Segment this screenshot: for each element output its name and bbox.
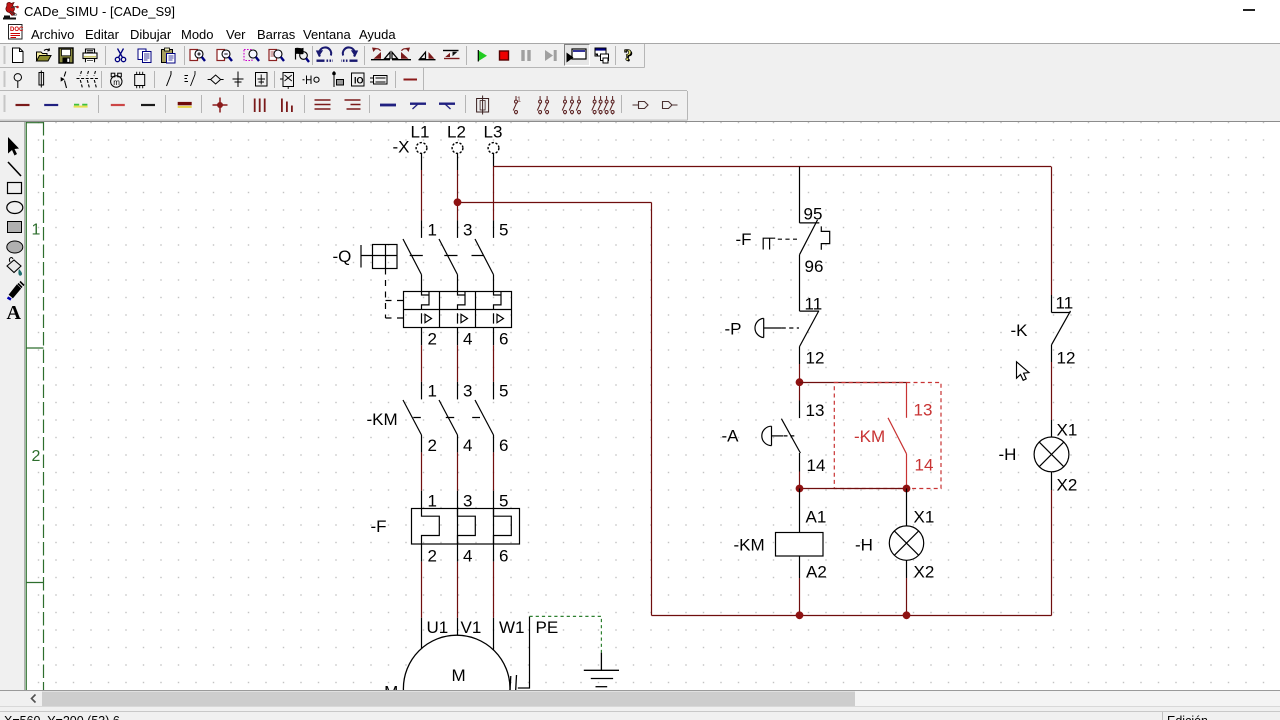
lamp H1 <box>889 526 923 560</box>
ground symbol <box>584 653 619 687</box>
breaker Q1 trip link dashed <box>385 269 387 319</box>
breaker Q1 contact blade pole3 <box>475 239 494 275</box>
icon: step <box>545 50 553 61</box>
svg-text:2: 2 <box>32 448 41 465</box>
toolbars <box>0 43 1280 122</box>
wire L1 phase <box>421 153 423 170</box>
svg-text:5: 5 <box>499 382 508 401</box>
stop button P1 11-12 <box>755 311 819 347</box>
svg-text:12: 12 <box>1057 349 1076 368</box>
breaker Q1 pole wires into trip unit <box>422 275 494 292</box>
svg-text:L3: L3 <box>484 123 503 142</box>
icon: copy <box>138 49 151 63</box>
sheet margin tick top <box>26 122 43 124</box>
svg-text:11: 11 <box>1056 294 1074 313</box>
selection box around KM aux <box>834 383 941 489</box>
svg-text:-KM: -KM <box>734 536 765 555</box>
bucket tool <box>7 258 22 276</box>
svg-text:2: 2 <box>428 436 437 455</box>
svg-text:1: 1 <box>428 221 437 240</box>
node junction bottom right <box>903 485 911 493</box>
relay contact K1 11-12 <box>1052 311 1071 345</box>
breaker Q1 magnetic I> pole3 <box>494 313 504 323</box>
sheet margin tick middle <box>26 347 43 349</box>
wire 12 to node <box>799 347 801 364</box>
zoom icons <box>190 50 205 62</box>
wire coil to bottom rail <box>799 556 801 578</box>
svg-text:V1: V1 <box>461 618 482 637</box>
svg-text:11: 11 <box>805 294 823 313</box>
icon: redo <box>341 47 358 60</box>
svg-text:-KM: -KM <box>854 427 885 446</box>
svg-text:-K: -K <box>1011 321 1029 340</box>
row1 separators <box>106 46 616 65</box>
ellipse tool <box>7 202 23 214</box>
wire pole2 KM to F <box>457 435 459 452</box>
h scrollbar <box>26 691 1280 706</box>
svg-text:W1: W1 <box>499 618 525 637</box>
breaker Q1 thermal element pole1 <box>422 292 430 310</box>
wire control top rail from L3 <box>494 166 1052 168</box>
auxiliary contact KM1 13-14 selected <box>888 383 907 489</box>
svg-text:m: m <box>113 78 120 87</box>
svg-text:3: 3 <box>463 491 472 510</box>
breaker Q1 thermal element pole3 <box>494 292 502 310</box>
svg-text:A: A <box>7 302 22 324</box>
icon: cut <box>115 49 125 62</box>
row2 icons <box>14 71 387 90</box>
breaker Q1 trip unit box <box>404 292 512 328</box>
wire pole2 Q to KM <box>457 328 459 346</box>
contactor KM1 blade pole3 <box>475 400 494 435</box>
svg-text:95: 95 <box>804 204 823 223</box>
svg-text:4: 4 <box>463 547 472 566</box>
wire node to coil <box>799 489 801 533</box>
icon: save <box>59 48 73 63</box>
wire L3 phase <box>493 153 495 166</box>
node junction rail left <box>796 611 804 619</box>
wire right rail stub to K contact <box>1051 295 1053 313</box>
title bar <box>0 0 1280 22</box>
line tool <box>8 162 21 176</box>
icon: play <box>479 51 488 62</box>
row3 icons <box>16 104 30 106</box>
svg-text:3: 3 <box>463 382 472 401</box>
wire lamp H1 to bottom rail <box>906 560 908 578</box>
svg-text:1: 1 <box>517 97 521 104</box>
breaker Q1 actuator box <box>361 245 397 269</box>
terminal L3 <box>488 143 499 154</box>
svg-text:-X: -X <box>393 138 410 157</box>
PE earth link dashed green <box>530 616 602 652</box>
icon: help <box>624 46 634 66</box>
sheet margin tick lower <box>26 582 43 584</box>
thermal relay F1 heater pole3 <box>494 508 512 544</box>
svg-text:X2: X2 <box>914 563 935 582</box>
svg-text:M: M <box>452 666 466 685</box>
coil KM1 <box>776 533 824 557</box>
wire neutral rail from L2 <box>458 202 652 204</box>
menu bar <box>0 22 1280 43</box>
canvas <box>25 122 1280 690</box>
node junction after 12 <box>796 378 804 386</box>
wire pole3 F to motor <box>493 544 495 562</box>
svg-text:-KM: -KM <box>367 410 398 429</box>
PE tick at motor <box>510 675 517 690</box>
svg-text:1: 1 <box>428 491 437 510</box>
left tool panel <box>0 122 25 706</box>
svg-text:?: ? <box>624 46 633 65</box>
wire lamp H2 to bottom rail <box>1051 472 1053 490</box>
icon: rotate right <box>392 48 411 60</box>
sheet margin outer line <box>25 122 27 690</box>
svg-text:Edición: Edición <box>1167 714 1208 720</box>
breaker Q1 linkage dashes <box>410 255 484 257</box>
svg-text:U1: U1 <box>427 618 449 637</box>
bottom scroll + status <box>0 690 1280 720</box>
thermal relay F1 box <box>412 509 520 545</box>
overload contact F1 95-96 <box>763 220 830 255</box>
breaker Q1 contact blade pole1 <box>403 239 422 275</box>
node junction rail right <box>903 611 911 619</box>
svg-text:6: 6 <box>499 329 508 348</box>
select arrow tool <box>8 137 19 156</box>
icon: paste <box>162 48 176 63</box>
status bar <box>0 711 1280 713</box>
breaker Q1 magnetic I> pole2 <box>458 313 468 323</box>
svg-text:6: 6 <box>499 436 508 455</box>
wire 14 to bottom node <box>799 453 801 472</box>
svg-text:96: 96 <box>805 257 824 276</box>
svg-text:X1: X1 <box>914 508 935 527</box>
contactor KM1 blade pole1 <box>403 400 422 435</box>
wire pole1 F to motor <box>421 544 423 562</box>
motor M1 circle <box>403 635 510 720</box>
svg-text:12: 12 <box>806 348 825 367</box>
svg-text:14: 14 <box>807 456 826 475</box>
row2 separators <box>102 71 396 88</box>
dropper tool <box>8 282 25 300</box>
svg-text:X2: X2 <box>1057 476 1078 495</box>
wire pole1 KM to F <box>421 435 423 452</box>
node junction bottom left <box>796 485 804 493</box>
svg-text:1: 1 <box>428 382 437 401</box>
svg-text:A1: A1 <box>806 508 827 527</box>
wire node to start button <box>799 386 801 401</box>
wire control drop to F95 <box>799 167 801 223</box>
svg-text:X1: X1 <box>1057 421 1078 440</box>
wire left rail down <box>651 203 653 616</box>
svg-text:-H: -H <box>999 445 1017 464</box>
start button A1 13-14 <box>762 419 801 453</box>
wire node to lamp H1 <box>906 489 908 526</box>
wire parallel top <box>800 382 907 384</box>
icon: rotate left <box>371 48 390 60</box>
svg-text:6: 6 <box>499 547 508 566</box>
wire parallel bottom <box>800 488 907 490</box>
svg-text:2: 2 <box>428 329 437 348</box>
svg-text:L1: L1 <box>411 123 430 142</box>
icon: pause <box>523 50 529 61</box>
terminal L1 <box>416 143 427 154</box>
icon: window2 cascade <box>595 48 609 63</box>
svg-text:IO: IO <box>354 76 364 86</box>
svg-text:X=560, Y=200 (53) 6: X=560, Y=200 (53) 6 <box>4 714 120 720</box>
wire pole3 KM to F <box>493 435 495 452</box>
svg-text:-F: -F <box>736 230 752 249</box>
svg-text:DOC: DOC <box>10 27 24 33</box>
contactor KM1 blade pole2 <box>439 400 458 435</box>
svg-text:-F: -F <box>371 517 387 536</box>
wire 96 to 11 <box>799 255 801 311</box>
svg-text:PE: PE <box>536 618 559 637</box>
svg-text:3: 3 <box>463 221 472 240</box>
wire pole1 Q to KM <box>421 328 423 346</box>
wire 12 to lamp H2 <box>1051 345 1053 362</box>
terminal L2 <box>452 143 463 154</box>
icon: mirror h <box>443 51 460 59</box>
rect tool <box>8 183 22 194</box>
thermal relay F1 heater pole1 <box>422 508 440 544</box>
breaker Q1 contact blade pole2 <box>439 239 458 275</box>
filled rect tool <box>8 222 22 233</box>
contactor KM1 linkage dashes <box>413 417 480 419</box>
filled ellipse tool <box>7 241 23 253</box>
svg-text:5: 5 <box>499 491 508 510</box>
svg-text:13: 13 <box>806 401 825 420</box>
svg-text:A2: A2 <box>806 563 827 582</box>
svg-text:L2: L2 <box>447 123 466 142</box>
icon: stop <box>500 51 509 60</box>
svg-text:-H: -H <box>855 536 873 555</box>
svg-text:4: 4 <box>463 329 472 348</box>
icon: print <box>83 49 97 62</box>
svg-text:1: 1 <box>32 222 41 239</box>
sheet margin ruler line <box>43 122 45 690</box>
svg-text:-A: -A <box>722 427 740 446</box>
svg-text:-P: -P <box>725 320 742 339</box>
wire pole2 F to motor <box>457 544 459 562</box>
icon: new <box>13 48 24 63</box>
app icon <box>2 2 24 21</box>
thermal relay F1 heater pole2 <box>458 508 476 544</box>
svg-text:13: 13 <box>914 401 933 420</box>
wire L2 phase <box>457 153 459 170</box>
toolbar panel borders <box>0 43 1280 45</box>
svg-text:14: 14 <box>915 456 934 475</box>
svg-text:4: 4 <box>463 436 472 455</box>
row3 separators <box>99 95 622 113</box>
svg-text:2: 2 <box>428 547 437 566</box>
wire bottom rail <box>652 615 1052 617</box>
svg-text:-Q: -Q <box>333 247 352 266</box>
PE wire <box>518 616 530 688</box>
node junction L2 tap <box>454 198 462 206</box>
svg-text:5: 5 <box>499 221 508 240</box>
icon: undo <box>316 47 333 60</box>
breaker Q1 magnetic I> pole1 <box>422 313 432 323</box>
wire pole3 Q to KM <box>493 328 495 346</box>
mouse cursor <box>1017 362 1030 381</box>
icon: open <box>37 48 52 61</box>
pressed button window1 <box>565 45 590 66</box>
breaker Q1 thermal element pole2 <box>458 292 466 310</box>
svg-text:-M: -M <box>379 683 399 691</box>
lamp H2 <box>1034 437 1069 472</box>
wire right rail down <box>1051 167 1053 296</box>
icon: mirror v <box>419 52 436 60</box>
